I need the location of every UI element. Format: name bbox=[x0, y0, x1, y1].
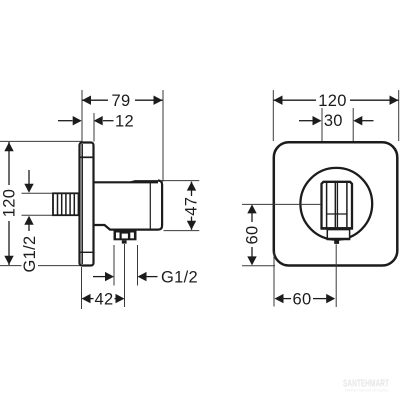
svg-text:12: 12 bbox=[115, 113, 134, 131]
extension line below plate x=274 bbox=[273, 252, 275, 307]
extension line below plate x=81.5 bbox=[81, 267, 83, 309]
svg-text:60: 60 bbox=[293, 291, 312, 309]
svg-text:60: 60 bbox=[244, 226, 262, 245]
wall plate (front view, rounded square) bbox=[274, 142, 398, 265]
threaded pipe G1/2 (side view) bbox=[53, 193, 79, 215]
center horizontal extension line (left, to holder) bbox=[242, 203, 284, 205]
dimension 60 bottom (front view) bbox=[275, 291, 336, 309]
svg-text:47: 47 bbox=[183, 197, 201, 216]
outlet nub (side view) bbox=[122, 240, 127, 243]
extension line x=163 above body bbox=[162, 90, 164, 182]
center tick through circle to holder bbox=[284, 203, 320, 205]
extension line y=230.6 right of body bbox=[164, 230, 200, 232]
svg-text:30: 30 bbox=[324, 112, 343, 130]
extension line x=94 above plate bbox=[93, 113, 95, 142]
outlet thread extension x=137.5 bbox=[137, 245, 139, 286]
pipe top extension line bbox=[22, 192, 54, 194]
holder lower block (front view) bbox=[327, 230, 351, 240]
dimension 30 (front view) bbox=[299, 112, 374, 130]
label G1/2 (bottom outlet) bbox=[93, 268, 198, 286]
watermark bbox=[343, 378, 389, 393]
svg-text:120: 120 bbox=[1, 189, 19, 217]
extension line y=265.7 left of plate bottom bbox=[242, 265, 275, 267]
svg-text:79: 79 bbox=[112, 92, 131, 110]
holder (front view) bbox=[321, 182, 353, 229]
svg-text:120: 120 bbox=[318, 92, 346, 110]
svg-text:INTERNET-MAGAZIN SANTEHNIKI: INTERNET-MAGAZIN SANTEHNIKI bbox=[345, 388, 388, 393]
outlet nut (side view) bbox=[114, 230, 137, 240]
circle (front view) bbox=[300, 168, 372, 240]
extension line top left (plate top to 120 dim) bbox=[0, 140, 82, 142]
dimension 120 (vertical, left) bbox=[1, 142, 19, 265]
outlet centerline x=124.5 bbox=[124, 244, 126, 307]
svg-text:G1/2: G1/2 bbox=[161, 268, 198, 286]
svg-text:42: 42 bbox=[95, 291, 114, 309]
extension line x=273.3 above plate bbox=[272, 90, 274, 141]
extension line bottom left (plate bottom to 120 dim) bbox=[0, 265, 93, 267]
dimension 42 bbox=[82, 291, 125, 309]
dimension 47 (vertical, right of body) bbox=[183, 182, 201, 230]
extension line x=398.7 above plate bbox=[398, 90, 400, 141]
dimension 120 (front view top) bbox=[274, 92, 399, 110]
centerline below plate x=335 bbox=[335, 244, 337, 307]
pipe bottom extension line bbox=[22, 214, 54, 216]
fixture body (side profile) bbox=[94, 181, 163, 230]
dimension 79 bbox=[82, 92, 163, 110]
dimension G1/2 (left pipe, vertical) bbox=[21, 170, 39, 274]
extension line x=352.3 (holder right) bbox=[352, 108, 354, 181]
dimension 60 vertical (front view left) bbox=[244, 204, 262, 265]
extension line y=180.6 right of body bbox=[160, 180, 199, 182]
outlet thread extension x=114 bbox=[113, 245, 115, 286]
wall plate (escutcheon, side profile) bbox=[80, 143, 95, 266]
extension line x=322 (holder left) bbox=[321, 108, 323, 181]
dimension 12 bbox=[58, 113, 134, 131]
extension line x=82 above plate bbox=[81, 90, 83, 142]
holder nub (front view) bbox=[334, 240, 339, 244]
svg-text:G1/2: G1/2 bbox=[21, 236, 39, 273]
